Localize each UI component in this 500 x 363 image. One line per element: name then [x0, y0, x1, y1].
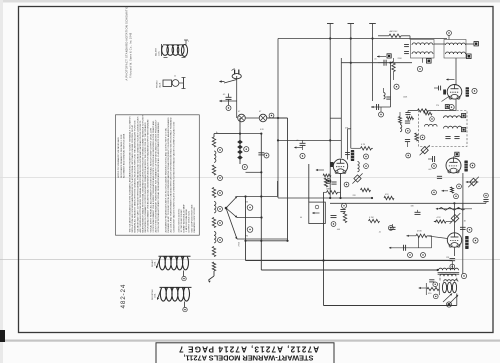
svg-text:.002: .002 — [428, 169, 432, 171]
cap below y203 terminal — [340, 209, 345, 211]
svg-text:COIL: COIL — [158, 50, 160, 56]
T3 lead right down — [456, 278, 458, 281]
FM dipole loop coil L4 — [152, 287, 192, 311]
wire lamps to loop vertical — [267, 117, 288, 119]
svg-text:JACK: JACK — [158, 82, 161, 88]
svg-text:STEWART-WARNER MODELS A7211,: STEWART-WARNER MODELS A7211, — [184, 354, 314, 363]
V1 dark coil right — [358, 162, 360, 172]
electrolytic capacitor block — [309, 202, 326, 223]
FM tuner trimmer caps — [445, 136, 450, 138]
wire T2 down to tube V2 — [455, 58, 457, 86]
terminal below field — [434, 294, 439, 299]
bus vertical 1 with tick — [329, 24, 331, 199]
V4 terminal right — [473, 238, 478, 243]
chain coil La — [214, 151, 216, 162]
wire cap to output transformer — [451, 268, 453, 270]
pilot lamp I1 — [238, 114, 246, 122]
svg-text:482-24: 482-24 — [120, 284, 127, 309]
IF transformer T2 — [444, 40, 466, 59]
band switch S2 wipers — [225, 196, 238, 239]
svg-text:ALIGNMENT AND GENERAL SERVICE: ALIGNMENT AND GENERAL SERVICE DATA — [123, 133, 126, 178]
bus vertical 2 with tick — [350, 24, 352, 149]
line bypass capacitor C1 — [223, 94, 232, 106]
junction dots bottom wires — [437, 269, 439, 271]
svg-text:4.7K: 4.7K — [361, 144, 366, 146]
coupling cap y247.8 — [389, 247, 432, 249]
bottom title block box — [156, 343, 334, 363]
bypass caps x407.5 — [405, 120, 410, 122]
terminal above T2 — [447, 31, 452, 36]
V1 plate resistor 4.7K — [361, 147, 372, 150]
T3 terminal right — [461, 273, 466, 278]
arrow at V2 top wire — [447, 79, 455, 81]
svg-text:CONDENSER VALUES IN MFD UNLESS: CONDENSER VALUES IN MFD UNLESS OTHERWISE… — [172, 121, 175, 233]
svg-text:VOLTAGES MAY VARY 15 PERCENT W: VOLTAGES MAY VARY 15 PERCENT WITH NORMAL… — [136, 116, 139, 232]
detector tube V3 12AT7 — [446, 158, 461, 173]
arrow left near x314 — [316, 169, 324, 171]
notes box outline — [116, 115, 200, 235]
ground arrow at line cap — [220, 100, 237, 102]
V1 terminal upper right — [364, 154, 369, 159]
wire y172 link — [246, 171, 262, 173]
cap on x261 vertical — [258, 152, 264, 154]
svg-text:FM ANT: FM ANT — [151, 259, 154, 267]
svg-text:.006: .006 — [337, 229, 341, 231]
converter tube V1 12BE6 — [333, 159, 347, 173]
V2 pin terminal — [472, 88, 477, 93]
svg-text:AM OSC: AM OSC — [390, 30, 398, 33]
long wire y203 — [330, 202, 486, 204]
wire plug down to line cap — [236, 80, 238, 102]
connector vertical wire x240 — [239, 118, 241, 164]
V1 grid dark mark left — [330, 162, 333, 167]
V1 bottom terminal — [364, 164, 369, 169]
svg-text:ALL COILS AND TRANSFORMERS CHE: ALL COILS AND TRANSFORMERS CHECKED WITH … — [170, 117, 173, 232]
AVC cap on horizontal wire y107 — [371, 106, 391, 108]
AM oscillator trimmer resistor — [389, 34, 401, 37]
divider chain top wire — [213, 134, 215, 137]
long wire y305 — [324, 305, 457, 307]
FM tuner pads — [462, 114, 466, 118]
cap below-left of V1 — [331, 181, 336, 183]
FM tuner small coil — [425, 124, 438, 126]
svg-text:FM BAND 88 MC TO 108 MC OSCIL: FM BAND 88 MC TO 108 MC OSCILLATOR OPERA… — [167, 117, 170, 233]
speaker voice coil — [442, 280, 458, 293]
wire T1 to T2 — [434, 43, 445, 45]
cap above field resistor — [429, 279, 434, 281]
resistor y190 right of V1 — [361, 188, 371, 191]
wire y240 horizontal — [246, 240, 288, 242]
chain terminal f — [218, 238, 223, 243]
small cap x388 — [386, 96, 390, 98]
connector diamond stack — [237, 140, 243, 160]
svg-text:470K: 470K — [417, 231, 422, 233]
band switch contacts — [247, 205, 253, 211]
svg-text:A7212, A7213, A7214 PAGE 7: A7212, A7213, A7214 PAGE 7 — [178, 344, 319, 353]
small coil x383 — [384, 93, 386, 99]
mid horizontal wire y62.7 — [341, 62, 412, 64]
arrow left of grid resistor — [406, 235, 416, 237]
T1 solder pad — [427, 59, 432, 64]
vertical x245 — [245, 197, 247, 261]
terminals below coupling cap — [408, 253, 413, 258]
cathode bypass cap — [450, 258, 456, 260]
T1 trimmer caps — [404, 44, 409, 46]
long top horizontal wire — [278, 38, 447, 40]
wire V1 down to y198 — [340, 174, 342, 199]
diamond near FM box — [421, 147, 428, 154]
wire switch row 2 — [237, 217, 262, 219]
V3 vertical to y209 — [462, 173, 464, 209]
page edge shading top — [0, 0, 500, 3]
svg-text:.01: .01 — [379, 232, 382, 234]
svg-text:ALIGNMENT FREQUENCIES AM IF 4: ALIGNMENT FREQUENCIES AM IF 455 KC OSCIL… — [165, 128, 168, 233]
terminal below grid cap — [300, 153, 305, 158]
terminal below grid resistor — [394, 84, 399, 89]
dark terminal x328 y181 — [326, 179, 331, 184]
volume control cluster — [331, 213, 347, 227]
diamond below V1 — [354, 175, 361, 182]
short bus links near converter — [330, 117, 341, 119]
svg-text:THE VOLTAGES INDICATED ON THE: THE VOLTAGES INDICATED ON THE SCHEMATIC … — [129, 116, 132, 233]
resistor 1MEG below V1 — [327, 191, 338, 194]
resistor small x410 — [407, 117, 414, 120]
svg-text:©Howard W. Sams & Co., Inc 194: ©Howard W. Sams & Co., Inc 1948 — [130, 32, 133, 78]
V2 cathode wire down — [455, 99, 457, 111]
cap x417 y212 — [415, 211, 421, 213]
resistor below-left of V1 — [324, 178, 327, 187]
IF amplifier tube V2 12BA6 — [447, 85, 462, 100]
V4 grid resistor 470K — [416, 234, 427, 237]
bus junction dots — [329, 37, 331, 39]
page fold lines (faint) — [0, 259, 500, 261]
T3 lead left down — [439, 278, 441, 281]
cap on V4 top wire region — [462, 203, 464, 274]
chain terminal c — [218, 191, 223, 196]
black mark bottom-left page edge — [0, 330, 5, 342]
AC line plug P1 — [232, 69, 242, 79]
svg-text:RESISTANCE READINGS SEE PAGE: RESISTANCE READINGS SEE PAGE 2 FOR — [120, 134, 123, 178]
grid cap left of V1 — [300, 142, 306, 144]
vertical x287 — [287, 118, 289, 241]
terminal below line cap — [226, 106, 231, 111]
svg-text:PHONO: PHONO — [157, 80, 159, 88]
wire y140 loop to converter grid — [278, 139, 342, 141]
FM tuner coil lower — [444, 126, 462, 128]
AM antenna coil L1 — [155, 40, 190, 58]
cap x392 y227 — [390, 226, 396, 228]
FM tuner resistor — [424, 112, 432, 115]
FM antenna loop coil L3 — [151, 256, 191, 281]
speaker terminal dark — [446, 302, 451, 307]
bottom title text STEWART-WARNER (rotated 180) — [178, 344, 319, 362]
V2 slanted lead lower-left — [442, 96, 450, 102]
ground arrow at field — [419, 287, 427, 289]
long wire y198 — [278, 197, 372, 199]
choke squiggle wire y209 — [436, 208, 472, 210]
svg-text:4.7M: 4.7M — [369, 217, 374, 219]
svg-text:A PHOTOFACT STANDARD NOTATION: A PHOTOFACT STANDARD NOTATION SCHEMATIC — [125, 6, 129, 80]
svg-text:MINIMUM ALL READINGS TAKEN WI: MINIMUM ALL READINGS TAKEN WITH THE CHAN… — [134, 120, 137, 232]
chain coil Lb — [214, 202, 216, 213]
terminal mid right — [417, 66, 422, 71]
bus vertical 3 with tick — [372, 24, 374, 102]
vertical from y62.7 to grid network — [340, 58, 342, 63]
terminal left top — [388, 226, 393, 231]
junction dots switch area — [244, 240, 246, 242]
junction dots mid — [371, 197, 373, 199]
speaker down wire — [456, 294, 458, 306]
coupling cap on y62.7 wire — [383, 60, 385, 66]
svg-text:RADIATED LOOP SCOPE: RADIATED LOOP SCOPE — [193, 207, 196, 233]
svg-text:4.7K: 4.7K — [437, 217, 442, 219]
wire y133.6 link — [240, 133, 261, 135]
output transformer T3 — [438, 268, 460, 276]
V2 bypass cap — [405, 112, 410, 114]
FM tuner coil upper — [443, 116, 461, 118]
svg-text:ARE SHOWN AS BOTTOM VIEWS TER: ARE SHOWN AS BOTTOM VIEWS TERMINAL IDENT… — [139, 120, 142, 232]
svg-text:SIGNAL INPUT REPEAT ALL ADJUS: SIGNAL INPUT REPEAT ALL ADJUSTMENTS FOR … — [149, 127, 152, 232]
svg-text:3 FOLLOW WITH AN ACCURATE SIG: 3 FOLLOW WITH AN ACCURATE SIGNAL GENERAT… — [157, 122, 160, 232]
small resistor x324 y175 — [323, 174, 331, 177]
connector terminals — [244, 147, 249, 152]
long wire y270 — [261, 269, 437, 271]
pilot lamp I2 — [259, 114, 267, 122]
electrolytic top circle — [315, 205, 319, 209]
svg-text:NOTES TO SCHEMATIC VOLTAGES: NOTES TO SCHEMATIC VOLTAGES AND — [117, 137, 120, 178]
resistor horizontal y198 right — [384, 196, 394, 199]
diamond y218 — [451, 215, 459, 223]
vertical x324 — [323, 192, 325, 305]
wire switch row 1 — [237, 196, 278, 198]
osc coil column x400 — [399, 117, 402, 124]
chain terminal b — [218, 176, 223, 181]
caps above V1 — [345, 152, 350, 154]
resistor y221 with arrow — [436, 220, 446, 223]
IF transformer T1 — [411, 40, 435, 63]
V2 cathode resistor — [418, 109, 429, 112]
chain resistor Rd — [212, 218, 215, 228]
V2 grid cap left — [438, 86, 440, 91]
svg-text:270: 270 — [436, 105, 439, 107]
cap below V3 — [437, 175, 442, 177]
long wire y260 — [246, 260, 453, 262]
svg-text:ADJUST THE DISCRIMINATOR TRANS: ADJUST THE DISCRIMINATOR TRANSFORMER FOR… — [155, 119, 158, 232]
wire switch row 3 — [237, 238, 288, 240]
chain resistor Re — [212, 247, 215, 257]
svg-text:AM ANT: AM ANT — [155, 48, 158, 56]
wire down to pilot lamps — [236, 101, 238, 118]
chain terminal d — [218, 207, 223, 212]
V3 terminal right — [470, 163, 475, 168]
T2 solder pad — [467, 54, 472, 59]
chain coil Lc — [214, 232, 216, 243]
svg-text:40: 40 — [300, 217, 302, 219]
FM tuner terminal — [430, 117, 435, 122]
arrow inside electrolytic box — [313, 212, 320, 214]
ground arrow left of V1 — [295, 147, 303, 149]
phono jack J1 — [157, 76, 186, 89]
chain resistor Rb — [212, 165, 215, 175]
terminal below V1 area — [342, 203, 347, 208]
audio output tube V4 50L6GT — [447, 233, 461, 247]
wire between pilot lamps — [245, 117, 259, 119]
on/off switch SW1 — [219, 76, 237, 83]
grid network box — [417, 236, 419, 248]
detector grid resistor — [392, 62, 395, 72]
field resistor 450 ohm — [427, 287, 439, 294]
terminal below AVC cap — [379, 112, 384, 117]
svg-text:.05: .05 — [296, 140, 299, 142]
terminal right of lamps — [269, 113, 274, 118]
V2 cathode pad and terminal — [449, 105, 454, 110]
V3 cathode resistor — [451, 187, 454, 193]
chain terminal a — [218, 148, 223, 153]
svg-text:.01: .01 — [374, 59, 377, 61]
resistor horizontal y221 left — [369, 219, 380, 222]
arrow and pad near IF strip — [377, 56, 386, 58]
chain resistor Ra — [212, 137, 215, 147]
field network box — [425, 283, 427, 295]
wire T2 to right pad — [466, 43, 474, 45]
page bottom edge shadow — [0, 340, 500, 342]
V4 cathode down wire — [454, 247, 456, 256]
svg-text:MEASUREMENTS MADE WITH SIGNAL: MEASUREMENTS MADE WITH SIGNAL GENERATOR … — [142, 114, 145, 232]
page edge shading left — [0, 0, 3, 363]
cap at right end of y203 wire — [483, 199, 488, 201]
V3 plate diamond — [466, 181, 479, 183]
svg-text:DUMMY ANTENNA 200 MMF: DUMMY ANTENNA 200 MMF — [183, 204, 186, 233]
chain resistor Rf — [212, 262, 215, 271]
V3 pad above — [455, 152, 459, 156]
svg-text:2 FOR FM ALIGNMENT USE A SWEE: 2 FOR FM ALIGNMENT USE A SWEEP GENERATOR… — [152, 120, 155, 232]
terminal right of cap — [344, 182, 349, 187]
svg-text:1 FOR AM ALIGNMENT USE AN AM: 1 FOR AM ALIGNMENT USE AN AM SIGNAL GENE… — [147, 119, 150, 232]
chain resistor Rc — [212, 188, 215, 198]
resistor vertical x416 — [415, 133, 418, 141]
vertical x308 to electrolytic — [308, 164, 310, 202]
svg-text:INDICATED ON SCHEMATIC OUTPUT: INDICATED ON SCHEMATIC OUTPUT INDICATOR … — [144, 122, 147, 233]
V2 grid dark mark — [443, 90, 446, 95]
V4 top wire — [453, 203, 455, 233]
svg-text:2: 2 — [188, 41, 189, 43]
speaker X arrows — [443, 294, 452, 303]
chain ground arrow — [213, 271, 215, 276]
svg-text:WITH A VTVM LINE VOLTAGE MAIN: WITH A VTVM LINE VOLTAGE MAINTAINED AT 1… — [131, 124, 134, 232]
svg-text:1MEG: 1MEG — [326, 189, 332, 191]
loop left vertical wire — [277, 39, 279, 199]
FM tuner dashed enclosure — [419, 111, 468, 147]
V3 caps left — [432, 156, 434, 162]
arrow left below V3 — [442, 190, 449, 192]
chain terminal e — [218, 221, 223, 226]
vertical x261 — [260, 134, 262, 270]
